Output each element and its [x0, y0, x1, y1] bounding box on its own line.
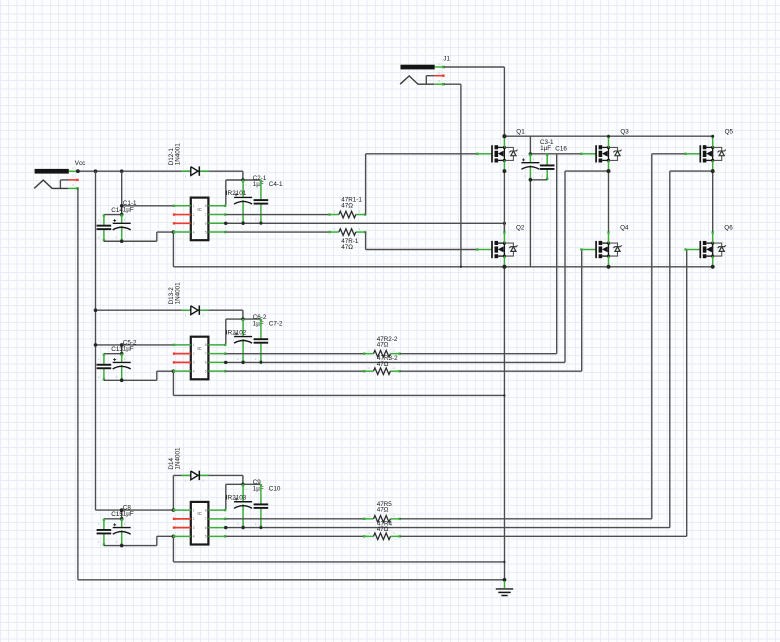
junction bootstrap node	[241, 483, 244, 486]
transistor Q1 N-MOSFET high side	[476, 136, 517, 172]
svg-text:1N4001: 1N4001	[174, 447, 181, 470]
svg-text:IR2103: IR2103	[226, 495, 247, 502]
junction phase node	[607, 169, 611, 173]
junction VS at Q2 drain	[503, 222, 506, 225]
svg-text:Q6: Q6	[724, 225, 733, 232]
pin 2 HIN unconnected (red)	[173, 352, 191, 354]
wire +V top rail Q1-Q3-Q5 drains	[504, 135, 712, 137]
wire Vcc rail to bootstrap diode D12-1	[78, 171, 243, 180]
svg-text:5: 5	[205, 230, 207, 234]
junction cap branch at pin1 row	[120, 508, 124, 512]
junction cap branch at cap top row	[120, 213, 124, 217]
wire phase node high source to low drain	[608, 171, 610, 232]
wire Vcc branch to IR2102 pin1	[96, 344, 174, 346]
svg-text:6: 6	[205, 526, 207, 530]
capacitor C3-1 1uF electrolytic	[521, 154, 539, 180]
svg-text:7: 7	[205, 213, 207, 217]
op-amp driver U1 IR2101	[191, 198, 209, 241]
pin 3 LIN unconnected (red)	[173, 526, 191, 528]
wire VS phase sense	[226, 171, 609, 362]
junction rail at Q3 drain	[607, 135, 610, 138]
junction cap branch at cap top row	[120, 517, 124, 521]
resistor R1b 47R-1 47Ω	[328, 227, 366, 236]
junction bootstrap node	[241, 317, 244, 320]
pin 1 VCC (green)	[173, 509, 191, 511]
junction cap branch at pin1 row	[120, 204, 124, 208]
svg-text:J1: J1	[443, 55, 450, 62]
junction VS at bootstrap cap 1	[241, 361, 244, 364]
junction IR2103 supply / D14 branch	[172, 508, 176, 512]
junction C3-1 top	[529, 152, 533, 156]
svg-text:47Ω: 47Ω	[377, 341, 389, 348]
capacitor C13 bypass	[97, 353, 112, 380]
wire COM to ground rail	[172, 232, 174, 267]
wire cap bottoms to COM pin	[104, 371, 173, 380]
pin 8 VB (green)	[208, 344, 226, 346]
junction cap bottom	[120, 239, 124, 243]
junction phase A node	[503, 169, 507, 173]
pin 6 VS (green)	[208, 526, 226, 528]
pin 4 COM (green)	[173, 535, 191, 537]
junction cap branch at cap top row	[120, 352, 124, 356]
svg-text:1µF: 1µF	[123, 346, 134, 353]
wire LO to low-side gate	[400, 250, 687, 537]
svg-text:Q2: Q2	[516, 225, 525, 232]
capacitor C8 1uF electrolytic	[113, 519, 131, 546]
junction J1/Q1 drain	[502, 134, 506, 138]
resistor R2a 47R2-2 47Ω	[363, 348, 401, 357]
svg-text:Q4: Q4	[620, 225, 629, 232]
capacitor C16	[540, 154, 555, 180]
pin 2 HIN unconnected (red)	[173, 213, 191, 215]
junction VS at bootstrap cap 1	[241, 222, 244, 225]
svg-text:6: 6	[205, 222, 207, 226]
wire phase node high source to low drain	[712, 171, 714, 232]
resistor R1a 47R1-1 47Ω	[328, 209, 366, 218]
svg-text:47Ω: 47Ω	[377, 526, 389, 533]
svg-text:47Ω: 47Ω	[341, 202, 353, 209]
wire HO to gate resistor	[226, 353, 364, 355]
svg-text:1µF: 1µF	[123, 511, 134, 518]
junction VS at bootstrap cap 2	[259, 222, 262, 225]
pin 4 COM (green)	[173, 370, 191, 372]
pin 8 VB (green)	[208, 205, 226, 207]
junction Vcc at distribution column	[94, 169, 98, 173]
junction bootstrap node	[241, 178, 244, 181]
junction VS at pin 6	[224, 361, 227, 364]
wire J1 return pin down to source rail	[444, 84, 461, 267]
transistor Q2 N-MOSFET low side	[476, 231, 517, 267]
junction source rail Q4	[607, 265, 611, 269]
pin 5 LO (green)	[208, 231, 226, 233]
resistor R3a 47R5 47Ω	[363, 514, 401, 523]
svg-text:C14: C14	[111, 207, 123, 214]
svg-text:1N4001: 1N4001	[174, 282, 181, 305]
capacitor C10	[254, 484, 269, 528]
capacitor C4-1	[254, 180, 269, 224]
capacitor C5-2 1uF electrolytic	[113, 353, 131, 380]
junction top rail at Q1 drain	[502, 134, 506, 138]
capacitor C1-1 1uF electrolytic	[113, 214, 131, 241]
wire HO to high-side gate	[400, 154, 581, 354]
pin 7 HO (green)	[208, 518, 226, 520]
junction VS at bootstrap cap 2	[259, 361, 262, 364]
junction C3-1 bottom	[529, 178, 533, 182]
svg-text:5: 5	[205, 369, 207, 373]
pin 5 LO (green)	[208, 535, 226, 537]
svg-text:Q3: Q3	[620, 128, 629, 135]
svg-text:C15: C15	[111, 511, 123, 518]
junction Vcc column / IR2102 supply	[94, 343, 98, 347]
pin 3 LIN unconnected (red)	[173, 222, 191, 224]
pin 1 VCC (green)	[173, 205, 191, 207]
svg-text:Q5: Q5	[725, 128, 734, 135]
capacitor C2-1 1uF	[234, 180, 252, 224]
svg-text:5: 5	[205, 535, 207, 539]
wire HO to gate resistor	[226, 518, 364, 520]
svg-text:IR2102: IR2102	[226, 329, 247, 336]
junction COM line on ground vertical	[503, 561, 505, 563]
svg-text:1µF: 1µF	[123, 206, 134, 213]
svg-text:1: 1	[193, 343, 195, 347]
svg-text:4: 4	[193, 535, 195, 539]
junction phase C node	[711, 169, 715, 173]
svg-text:47Ω: 47Ω	[377, 507, 389, 514]
pin 1 VCC (green)	[173, 344, 191, 346]
junction COM line on ground vertical	[503, 394, 505, 396]
op-amp driver U2 IR2102	[191, 337, 209, 380]
svg-text:1: 1	[193, 508, 195, 512]
junction Vcc at jack pin	[76, 169, 80, 173]
pin 7 HO (green)	[208, 352, 226, 354]
svg-text:3: 3	[193, 526, 195, 530]
svg-text:4: 4	[193, 369, 195, 373]
diode D12-1 1N4001	[182, 166, 209, 178]
pin 6 VS (green)	[208, 222, 226, 224]
junction source rail Q2	[502, 265, 506, 269]
junction VS at bootstrap cap 1	[241, 526, 244, 529]
svg-text:1µF: 1µF	[540, 145, 551, 152]
capacitor C14 bypass	[97, 214, 112, 241]
wire LO to gate resistor	[226, 370, 364, 372]
junction cap branch at pin1 row	[120, 343, 124, 347]
wire supply branch to local caps	[104, 345, 122, 354]
wire Vcc jack ground pin down to ground rail	[78, 188, 505, 579]
ground symbol	[496, 581, 513, 596]
wire phase node high source to low drain	[503, 171, 505, 232]
wire VS phase sense	[226, 223, 505, 231]
wire LO to low-side gate	[366, 232, 477, 249]
wire COM to ground rail	[173, 371, 504, 395]
junction Vcc at C1-1 branch	[120, 169, 124, 173]
svg-text:47Ω: 47Ω	[377, 361, 389, 368]
diode D13-2 1N4001	[182, 306, 209, 318]
junction cap bottom	[120, 379, 124, 383]
svg-text:1N4001: 1N4001	[174, 143, 181, 166]
junction VS at bootstrap cap 2	[259, 526, 262, 529]
svg-text:2: 2	[193, 213, 195, 217]
svg-text:C7-2: C7-2	[269, 320, 283, 327]
junction ground rail at Q4 source	[607, 265, 611, 269]
svg-text:IC: IC	[197, 346, 201, 351]
junction COM pin branch	[172, 535, 176, 539]
svg-text:IC: IC	[197, 511, 201, 516]
junction ground rail at J1 return	[460, 266, 462, 268]
svg-text:2: 2	[193, 352, 195, 356]
transistor Q3 N-MOSFET high side	[580, 136, 621, 172]
wire HO to high-side gate	[400, 154, 685, 519]
wire VS phase sense	[226, 171, 713, 527]
wire bootstrap node VB	[226, 319, 261, 345]
transistor Q5 N-MOSFET high side	[684, 136, 725, 172]
wire HO to high-side gate	[366, 154, 477, 215]
pin 8 VB (green)	[208, 509, 226, 511]
wire J1 positive to top rail	[444, 67, 505, 136]
junction rail at Q5 drain	[711, 135, 714, 138]
svg-text:IC: IC	[197, 207, 201, 212]
junction phase B node	[607, 169, 611, 173]
svg-text:7: 7	[205, 517, 207, 521]
svg-text:7: 7	[205, 352, 207, 356]
junction source rail Q6	[711, 265, 715, 269]
junction Vcc column / D13-2 wire	[94, 308, 98, 312]
svg-text:2: 2	[193, 517, 195, 521]
junction VS at pin 6	[224, 222, 227, 225]
wire supply branch to local caps	[104, 171, 173, 214]
svg-text:IR2101: IR2101	[226, 190, 247, 197]
pin 2 HIN unconnected (red)	[173, 518, 191, 520]
wire Vcc branch to diode D13-2	[96, 310, 243, 319]
wire bootstrap node VB	[226, 484, 261, 510]
svg-text:3: 3	[193, 361, 195, 365]
svg-text:47Ω: 47Ω	[341, 244, 353, 251]
wire LO to low-side gate	[400, 250, 582, 372]
wire supply branch to local caps	[104, 510, 122, 519]
capacitor C6-2 1uF	[234, 319, 252, 363]
junction ground rail at Q6 source	[711, 265, 715, 269]
transistor Q4 N-MOSFET low side	[580, 231, 621, 267]
diode D14 1N4001	[182, 471, 209, 483]
wire Vcc distribution vertical	[95, 171, 97, 510]
transistor Q6 N-MOSFET low side	[684, 231, 725, 267]
junction COM pin branch	[172, 230, 176, 234]
junction ground rail at Q2 source	[502, 265, 506, 269]
svg-text:8: 8	[205, 508, 207, 512]
wire riser to diode D14	[173, 475, 243, 510]
junction COM pin branch	[172, 369, 176, 373]
svg-text:6: 6	[205, 361, 207, 365]
wire low-side source rail	[173, 266, 712, 268]
connector J1 (power DC jack)	[400, 62, 445, 86]
wire LO to gate resistor	[226, 535, 364, 537]
pin 5 LO (green)	[208, 370, 226, 372]
pin 4 COM (green)	[173, 231, 191, 233]
wire COM to ground rail	[173, 536, 504, 562]
svg-text:1: 1	[193, 204, 195, 208]
svg-text:8: 8	[205, 204, 207, 208]
wire LO to gate resistor	[226, 231, 329, 233]
pin 6 VS (green)	[208, 361, 226, 363]
wire Vcc column corner to IR2103 pin1	[96, 509, 174, 511]
capacitor C7-2	[254, 319, 269, 363]
junction phase node	[503, 169, 507, 173]
capacitor C15 bypass	[97, 519, 112, 546]
junction VS at pin 6	[224, 526, 227, 529]
op-amp driver U3 IR2103	[191, 502, 209, 545]
svg-text:C13: C13	[111, 346, 123, 353]
capacitor C9 1uF	[234, 484, 252, 528]
pin 7 HO (green)	[208, 213, 226, 215]
resistor R3b 47R4 47Ω	[363, 531, 401, 540]
svg-text:8: 8	[205, 343, 207, 347]
svg-text:C16: C16	[555, 146, 567, 153]
junction cap bottom	[120, 544, 124, 548]
svg-text:4: 4	[193, 230, 195, 234]
wire cap bottoms to COM pin	[104, 536, 173, 545]
wire HO to gate resistor	[226, 214, 329, 216]
junction phase node	[711, 169, 715, 173]
svg-text:Q1: Q1	[516, 128, 525, 135]
connector P1 (Vcc DC jack)	[34, 166, 79, 190]
wire cap bottoms to COM pin	[104, 232, 173, 241]
svg-text:C10: C10	[269, 486, 281, 493]
wire main ground vertical to ground symbol	[503, 267, 505, 580]
junction ground node	[503, 578, 507, 582]
wire C3-1/C16 bottoms to source rail	[530, 180, 547, 267]
wire rail branch to C3-1/C16	[530, 136, 556, 154]
wire bootstrap node VB	[226, 180, 261, 206]
resistor R2b 47R3-2 47Ω	[363, 366, 401, 375]
svg-text:C4-1: C4-1	[269, 181, 283, 188]
pin 3 LIN unconnected (red)	[173, 361, 191, 363]
svg-text:Vcc: Vcc	[75, 160, 86, 167]
svg-text:3: 3	[193, 222, 195, 226]
